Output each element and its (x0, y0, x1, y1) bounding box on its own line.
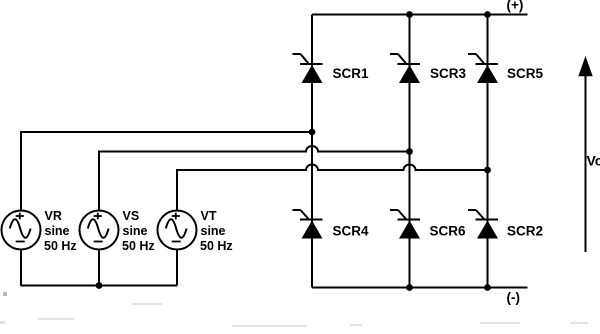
node: top rail / leg 3 junction (484, 11, 491, 18)
svg-text:SCR4: SCR4 (333, 224, 370, 239)
svg-text:VT: VT (201, 209, 217, 223)
wire: leg 1 vertical (311, 15, 313, 288)
svg-text:SCR1: SCR1 (333, 66, 370, 81)
wire: neutral joining source bottoms (21, 250, 178, 286)
wire: phase S from VS to leg 2 (hop over leg 1) (99, 146, 410, 211)
output voltage arrow Vo (578, 56, 592, 252)
thyristor SCR3 (390, 54, 420, 83)
thyristor SCR2 (468, 210, 498, 239)
thyristor SCR5 (468, 54, 498, 83)
node: bottom rail / leg 3 junction (484, 284, 491, 291)
faint watermark remnants (0, 0, 1, 1)
wire: top (+) rail (312, 14, 528, 16)
thyristor SCR1 (293, 54, 323, 83)
node: bottom rail / leg 2 junction (406, 284, 413, 291)
wire: phase R from VR to leg 1 (21, 132, 312, 211)
svg-text:SCR6: SCR6 (430, 224, 467, 239)
svg-text:SCR3: SCR3 (430, 66, 467, 81)
source VR (2, 211, 41, 250)
svg-text:50 Hz: 50 Hz (44, 239, 77, 253)
svg-text:(+): (+) (507, 0, 524, 13)
svg-text:VR: VR (45, 209, 62, 223)
source VT (158, 211, 197, 250)
svg-text:Vo: Vo (587, 153, 600, 169)
node: phase T / leg 3 junction (484, 167, 491, 174)
svg-text:VS: VS (123, 209, 140, 223)
svg-text:sine: sine (123, 224, 148, 238)
svg-text:(-): (-) (507, 290, 521, 305)
svg-text:sine: sine (201, 224, 226, 238)
node: top rail / leg 2 junction (406, 11, 413, 18)
wire: bottom (-) rail (312, 287, 528, 289)
svg-text:SCR2: SCR2 (507, 224, 543, 239)
wire: leg 2 vertical (409, 15, 411, 288)
svg-text:SCR5: SCR5 (507, 66, 544, 81)
thyristor SCR4 (293, 210, 323, 239)
thyristor SCR6 (390, 210, 420, 239)
node: phase R / leg 1 junction (309, 129, 316, 136)
svg-text:sine: sine (45, 224, 70, 238)
source VS (80, 211, 119, 250)
node: neutral / VS junction (96, 282, 103, 289)
wire: phase T from VT to leg 3 (hops over legs 1 and 2) (177, 165, 488, 212)
node: phase S / leg 2 junction (406, 148, 413, 155)
wire: leg 3 vertical (487, 15, 489, 288)
svg-text:50 Hz: 50 Hz (122, 239, 155, 253)
svg-text:50 Hz: 50 Hz (200, 239, 233, 253)
